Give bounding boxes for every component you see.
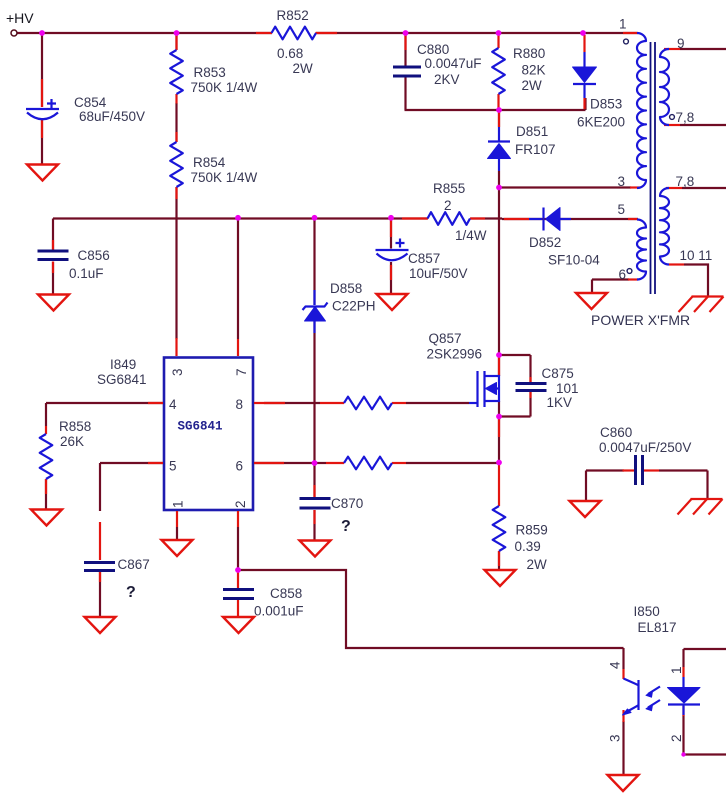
- svg-text:750K 1/4W: 750K 1/4W: [191, 80, 258, 95]
- svg-text:C867: C867: [118, 557, 150, 572]
- svg-text:R855: R855: [433, 181, 465, 196]
- svg-text:4: 4: [608, 661, 623, 669]
- svg-text:C860: C860: [600, 425, 632, 440]
- svg-text:3: 3: [618, 174, 626, 189]
- svg-text:I849: I849: [110, 357, 136, 372]
- svg-text:9: 9: [677, 36, 685, 51]
- svg-text:D858: D858: [330, 281, 362, 296]
- svg-text:1: 1: [171, 500, 186, 508]
- svg-text:0.0047uF: 0.0047uF: [425, 56, 482, 71]
- svg-text:Q857: Q857: [429, 331, 462, 346]
- svg-text:68uF/450V: 68uF/450V: [79, 109, 145, 124]
- svg-text:750K 1/4W: 750K 1/4W: [191, 170, 258, 185]
- svg-text:6: 6: [236, 459, 244, 474]
- svg-text:SG6841: SG6841: [97, 372, 147, 387]
- svg-text:0.001uF: 0.001uF: [254, 604, 304, 619]
- svg-text:D851: D851: [516, 124, 548, 139]
- svg-text:R858: R858: [59, 419, 91, 434]
- svg-text:R853: R853: [194, 65, 226, 80]
- svg-text:C875: C875: [542, 366, 574, 381]
- svg-text:0.68: 0.68: [277, 46, 303, 61]
- svg-text:7: 7: [234, 368, 249, 376]
- svg-text:2W: 2W: [522, 78, 543, 93]
- svg-text:C858: C858: [270, 586, 302, 601]
- svg-text:7,8: 7,8: [676, 174, 695, 189]
- svg-text:1KV: 1KV: [547, 395, 573, 410]
- svg-text:1/4W: 1/4W: [455, 228, 487, 243]
- svg-text:EL817: EL817: [638, 620, 677, 635]
- svg-text:5: 5: [169, 459, 177, 474]
- svg-text:0.0047uF/250V: 0.0047uF/250V: [599, 440, 691, 455]
- svg-text:2W: 2W: [527, 557, 548, 572]
- svg-text:10uF/50V: 10uF/50V: [409, 266, 468, 281]
- svg-text:2: 2: [669, 734, 684, 742]
- svg-text:3: 3: [170, 368, 185, 376]
- svg-text:FR107: FR107: [515, 142, 556, 157]
- svg-text:5: 5: [618, 202, 626, 217]
- svg-text:0.1uF: 0.1uF: [69, 266, 104, 281]
- svg-text:R852: R852: [277, 8, 309, 23]
- svg-text:82K: 82K: [522, 63, 546, 78]
- svg-text:7,8: 7,8: [676, 110, 695, 125]
- svg-text:C22PH: C22PH: [332, 299, 376, 314]
- svg-text:C856: C856: [78, 248, 110, 263]
- svg-text:2: 2: [444, 198, 452, 213]
- svg-text:2SK2996: 2SK2996: [427, 347, 483, 362]
- svg-text:D852: D852: [529, 235, 561, 250]
- svg-text:C880: C880: [417, 42, 449, 57]
- svg-text:3: 3: [608, 734, 623, 742]
- svg-text:?: ?: [341, 518, 351, 535]
- svg-text:C854: C854: [74, 95, 107, 110]
- svg-text:R880: R880: [513, 46, 545, 61]
- svg-text:SG6841: SG6841: [178, 420, 223, 434]
- svg-text:1: 1: [669, 666, 684, 674]
- svg-text:101: 101: [556, 381, 579, 396]
- svg-text:26K: 26K: [60, 434, 84, 449]
- svg-text:POWER X'FMR: POWER X'FMR: [591, 312, 690, 328]
- svg-text:2KV: 2KV: [434, 72, 460, 87]
- svg-text:6: 6: [619, 267, 627, 282]
- svg-text:R854: R854: [193, 155, 226, 170]
- svg-text:1: 1: [619, 17, 627, 32]
- svg-text:I850: I850: [634, 604, 660, 619]
- svg-text:R859: R859: [516, 523, 548, 538]
- svg-text:?: ?: [126, 584, 136, 601]
- svg-text:10 11: 10 11: [680, 248, 713, 263]
- svg-text:2W: 2W: [293, 61, 314, 76]
- svg-text:D853: D853: [590, 97, 622, 112]
- svg-text:2: 2: [233, 500, 248, 508]
- svg-text:6KE200: 6KE200: [577, 115, 625, 130]
- svg-text:+HV: +HV: [6, 10, 34, 26]
- svg-text:8: 8: [236, 397, 244, 412]
- svg-text:4: 4: [169, 397, 177, 412]
- svg-text:SF10-04: SF10-04: [548, 253, 600, 268]
- svg-text:0.39: 0.39: [515, 539, 541, 554]
- svg-text:C857: C857: [408, 251, 440, 266]
- svg-text:C870: C870: [331, 496, 363, 511]
